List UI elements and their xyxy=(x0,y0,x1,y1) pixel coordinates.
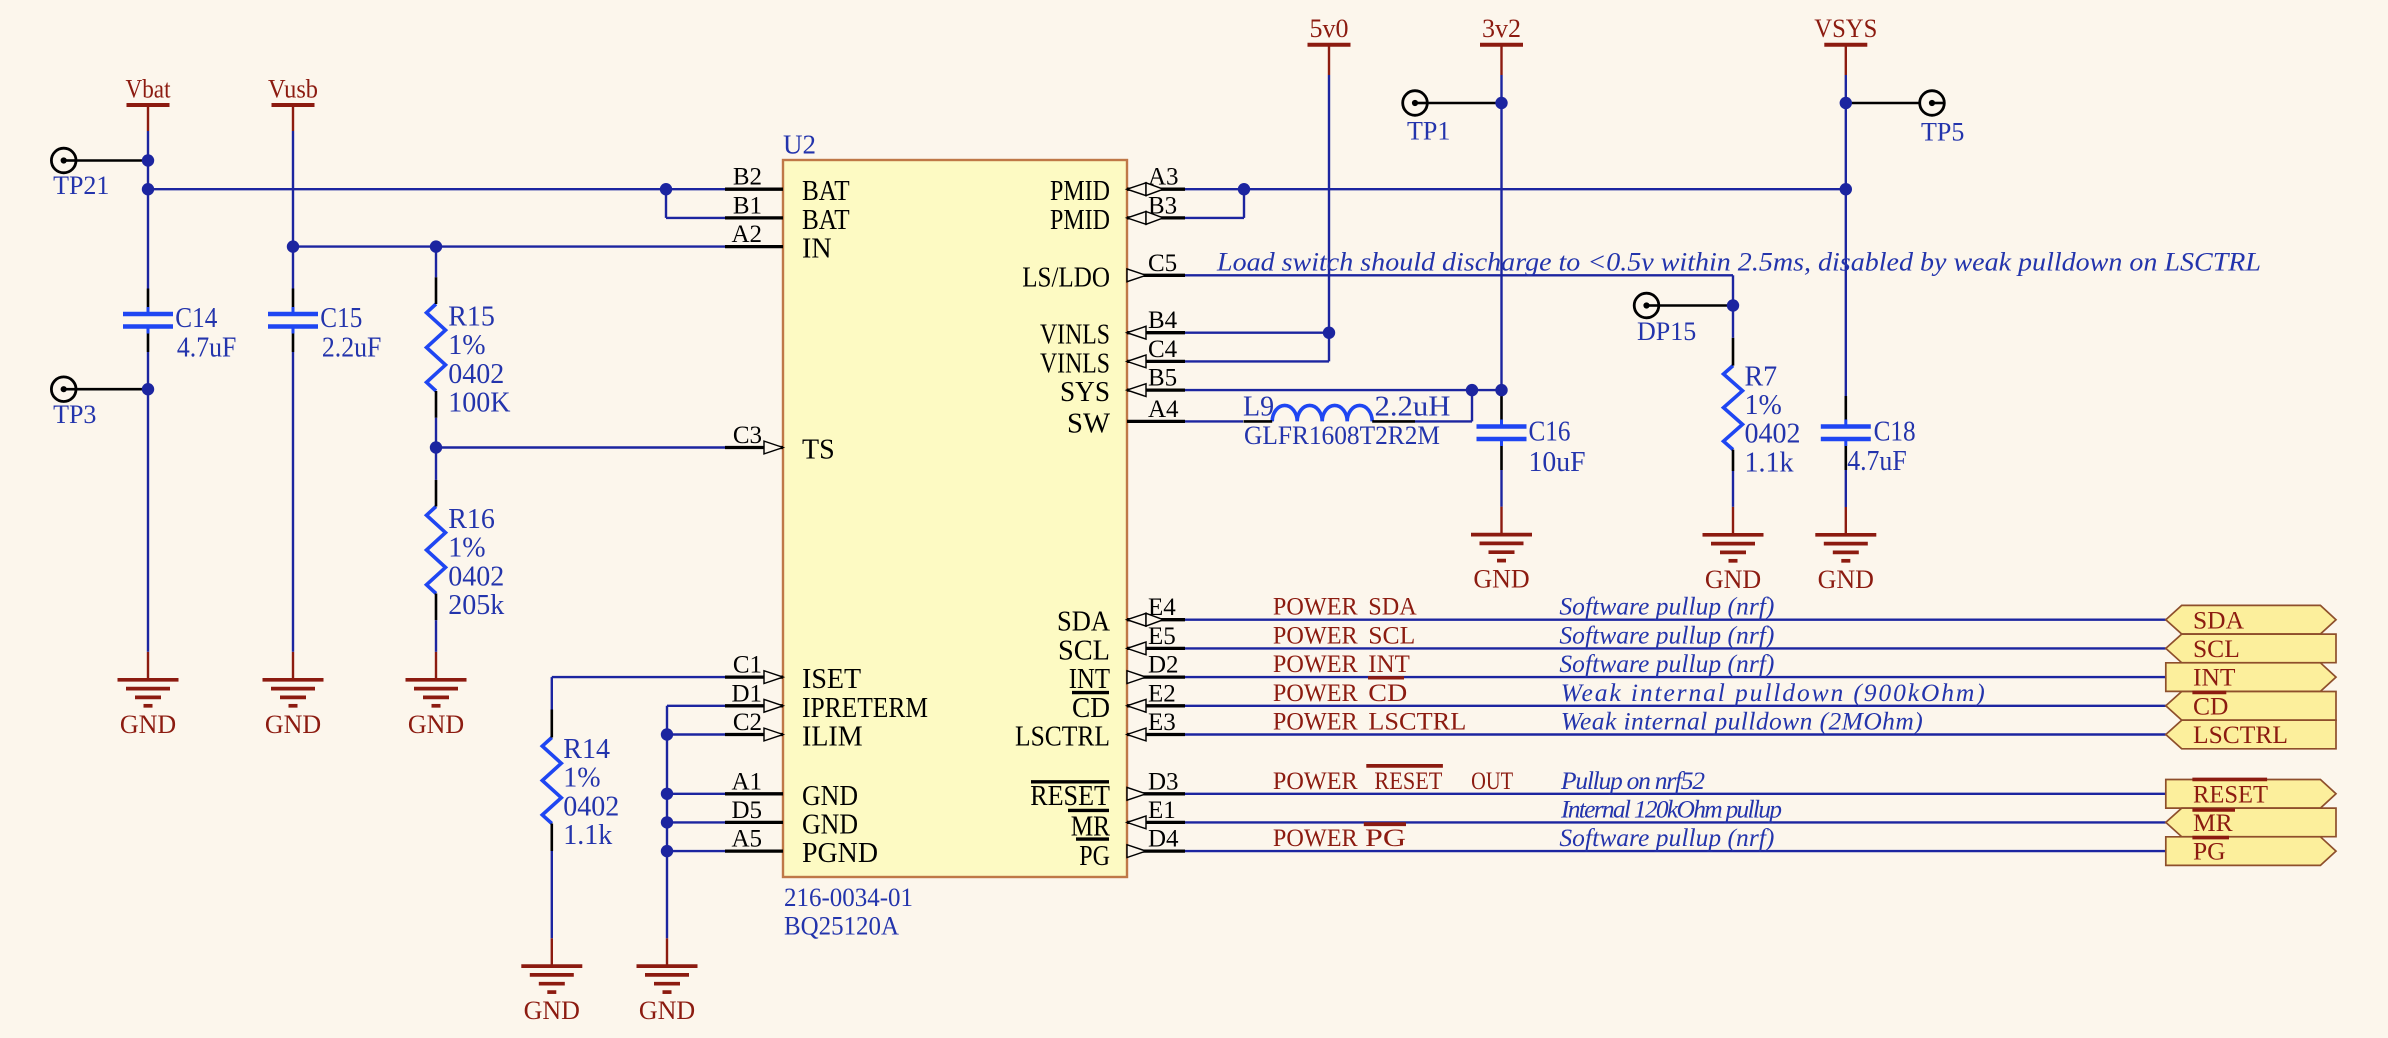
svg-text:SCL: SCL xyxy=(1058,635,1110,666)
capacitor C15 xyxy=(268,307,318,334)
svg-text:INT: INT xyxy=(1069,664,1110,695)
svg-text:GND: GND xyxy=(639,996,695,1025)
wire 5v0 vertical xyxy=(1328,75,1330,361)
pin B4 VINLS (U2 right) xyxy=(1127,331,1185,334)
resistor R15 xyxy=(427,304,446,391)
wire C15 top stub xyxy=(292,289,295,308)
svg-text:IPRETERM: IPRETERM xyxy=(802,693,928,724)
ground GND (under R14) xyxy=(521,966,582,1025)
svg-text:Software pullup (nrf): Software pullup (nrf) xyxy=(1559,823,1774,852)
svg-text:D3: D3 xyxy=(1148,768,1179,795)
wire SW right xyxy=(1415,420,1472,422)
wire R14 top stub xyxy=(550,710,553,738)
svg-text:B1: B1 xyxy=(733,192,762,219)
svg-text:R14: R14 xyxy=(563,734,610,765)
wire ISET vertical xyxy=(551,677,553,709)
svg-text:A4: A4 xyxy=(1148,396,1179,423)
wire R14 bottom link xyxy=(551,851,553,938)
svg-text:1%: 1% xyxy=(448,533,485,564)
svg-text:POWER: POWER xyxy=(1273,766,1358,795)
ground GND (under C16) xyxy=(1471,535,1532,594)
wire B3 vertical xyxy=(1243,189,1245,218)
wire ISET horizontal xyxy=(552,676,725,678)
svg-text:Weak internal pulldown (2MOhm): Weak internal pulldown (2MOhm) xyxy=(1561,707,1923,736)
svg-text:Load switch should discharge t: Load switch should discharge to <0.5v wi… xyxy=(1216,248,2261,277)
wire GND D5 horizontal xyxy=(667,821,725,823)
wire E4 net horizontal xyxy=(1185,619,2166,621)
svg-text:E5: E5 xyxy=(1148,623,1176,650)
pin A2 IN (U2 left) xyxy=(725,245,783,248)
wire C18 top stub xyxy=(1845,396,1848,420)
svg-text:B5: B5 xyxy=(1148,365,1177,392)
svg-text:PG: PG xyxy=(1079,841,1110,872)
overbar PG flag xyxy=(2192,836,2229,840)
ground GND (under R7) xyxy=(1703,535,1764,594)
test point TP3 xyxy=(51,377,148,429)
wire gnd stem R14 xyxy=(551,938,553,966)
wire VINLS C4 horizontal xyxy=(1185,360,1329,362)
svg-text:Software pullup (nrf): Software pullup (nrf) xyxy=(1559,649,1774,678)
wire D4 net horizontal xyxy=(1185,850,2166,852)
overbar RESET flag xyxy=(2192,778,2267,782)
resistor R14 xyxy=(542,738,561,824)
svg-text:100K: 100K xyxy=(448,388,510,419)
pin C2 ILIM (U2 left) xyxy=(725,733,783,736)
svg-text:R16: R16 xyxy=(448,504,495,535)
wire C14 top stub xyxy=(147,289,150,308)
pin E1 MR (U2 right) xyxy=(1127,821,1185,824)
svg-text:INT: INT xyxy=(2193,663,2236,692)
svg-text:LS/LDO: LS/LDO xyxy=(1022,262,1110,293)
svg-text:GND: GND xyxy=(524,996,580,1025)
wire VSYS vertical xyxy=(1845,75,1847,396)
junction dot 7 xyxy=(430,441,442,453)
svg-text:SDA: SDA xyxy=(2193,605,2245,634)
svg-text:C1: C1 xyxy=(733,652,762,679)
pin D2 INT (U2 right) xyxy=(1127,675,1185,678)
wire gnd stem U2-gnd xyxy=(666,938,668,966)
svg-text:GND: GND xyxy=(802,809,858,840)
svg-text:1.1k: 1.1k xyxy=(563,820,612,851)
svg-text:A2: A2 xyxy=(731,221,762,248)
test point TP5 xyxy=(1846,91,1965,147)
svg-text:216-0034-01: 216-0034-01 xyxy=(784,883,913,912)
svg-text:SCL: SCL xyxy=(1368,620,1415,649)
wire BAT bus left xyxy=(148,188,725,190)
pin D4 PG (U2 right) xyxy=(1127,849,1185,852)
wire E1 net horizontal xyxy=(1185,821,2166,823)
svg-text:GND: GND xyxy=(1818,565,1874,594)
svg-text:B4: B4 xyxy=(1148,307,1178,334)
svg-text:D2: D2 xyxy=(1148,652,1179,679)
wire Vusb vertical upper xyxy=(292,131,294,289)
svg-text:PG: PG xyxy=(1365,823,1406,852)
junction dot 17 xyxy=(1840,97,1852,109)
junction dot 15 xyxy=(1466,384,1478,396)
svg-text:ISET: ISET xyxy=(802,664,861,695)
junction dot 2 xyxy=(142,183,154,195)
pin A1 GND (U2 left) xyxy=(725,792,783,795)
junction dot 6 xyxy=(142,383,154,395)
svg-text:GLFR1608T2R2M: GLFR1608T2R2M xyxy=(1244,421,1440,450)
svg-text:CD: CD xyxy=(1368,678,1407,707)
svg-text:Software pullup (nrf): Software pullup (nrf) xyxy=(1559,592,1774,621)
wire gnd stem R16 xyxy=(435,652,437,680)
wire R16 bottom stub xyxy=(435,594,438,621)
junction dot 12 xyxy=(1238,183,1250,195)
pin E4 SDA (U2 right) xyxy=(1127,618,1185,621)
svg-text:LSCTRL: LSCTRL xyxy=(2193,720,2288,749)
junction dot 5 xyxy=(430,240,442,252)
ground GND (under C14) xyxy=(118,680,179,739)
pin B5 SYS (U2 right) xyxy=(1127,388,1185,391)
global label LSCTRL xyxy=(2166,720,2336,749)
svg-text:0402: 0402 xyxy=(448,359,504,390)
wire gnd stem C18 xyxy=(1845,507,1847,535)
pin B2 BAT (U2 left) xyxy=(725,188,783,191)
svg-text:POWER: POWER xyxy=(1273,649,1358,678)
svg-text:0402: 0402 xyxy=(1745,419,1801,450)
svg-text:PG: PG xyxy=(2193,837,2226,866)
svg-text:CD: CD xyxy=(1072,693,1110,724)
svg-text:RESET: RESET xyxy=(1030,781,1110,812)
junction dot 11 xyxy=(661,845,673,857)
svg-text:Vbat: Vbat xyxy=(126,74,172,103)
svg-text:TP3: TP3 xyxy=(53,400,96,429)
resistor R16 xyxy=(427,507,446,594)
wire VINLS B4 horizontal xyxy=(1185,332,1329,334)
svg-text:BAT: BAT xyxy=(802,205,850,236)
wire C18 bottom stub xyxy=(1845,446,1848,470)
junction dot 19 xyxy=(1727,299,1739,311)
wire PGND horizontal xyxy=(667,850,725,852)
svg-text:SDA: SDA xyxy=(1057,607,1111,638)
svg-text:1.1k: 1.1k xyxy=(1745,447,1794,478)
svg-text:U2: U2 xyxy=(783,130,816,160)
svg-text:A5: A5 xyxy=(731,826,762,853)
wire D2 net horizontal xyxy=(1185,676,2166,678)
wire R7 bottom link xyxy=(1732,471,1734,507)
svg-text:C5: C5 xyxy=(1148,250,1177,277)
pin B3 PMID (U2 right) xyxy=(1127,216,1185,219)
svg-text:Software pullup (nrf): Software pullup (nrf) xyxy=(1559,620,1774,649)
svg-text:ILIM: ILIM xyxy=(802,722,863,753)
svg-text:1%: 1% xyxy=(563,763,600,794)
svg-text:4.7uF: 4.7uF xyxy=(177,333,237,364)
svg-text:C4: C4 xyxy=(1148,336,1178,363)
svg-text:2.2uH: 2.2uH xyxy=(1375,392,1451,423)
global label CD xyxy=(2166,692,2336,721)
wire C16 bottom stub xyxy=(1500,446,1503,470)
wire E5 net horizontal xyxy=(1185,647,2166,649)
svg-text:E1: E1 xyxy=(1148,797,1176,824)
svg-text:OUT: OUT xyxy=(1471,766,1513,795)
svg-text:LSCTRL: LSCTRL xyxy=(1368,707,1466,736)
capacitor C18 xyxy=(1821,420,1871,447)
svg-text:SDA: SDA xyxy=(1368,592,1417,621)
svg-text:MR: MR xyxy=(2193,808,2233,837)
wire ILIM horizontal xyxy=(667,733,725,735)
wire R15-R16 link xyxy=(435,418,437,480)
wire SYS horizontal xyxy=(1185,389,1502,391)
overbar INT flag xyxy=(2192,691,2226,695)
wire gnd bus vertical xyxy=(666,706,668,939)
svg-text:L9: L9 xyxy=(1243,392,1274,423)
svg-text:5v0: 5v0 xyxy=(1310,14,1349,43)
wire PMID bus right xyxy=(1185,188,1846,190)
svg-text:R15: R15 xyxy=(448,302,495,333)
wire C16 top stub xyxy=(1500,395,1503,420)
wire R14 bottom stub xyxy=(550,824,553,852)
svg-text:GND: GND xyxy=(802,781,858,812)
wire 5v0 stem xyxy=(1328,45,1330,75)
power flag VSYS xyxy=(1814,14,1877,45)
svg-text:GND: GND xyxy=(265,710,321,739)
ground GND (under R16) xyxy=(406,680,467,739)
wire E3 net horizontal xyxy=(1185,733,2166,735)
svg-text:POWER: POWER xyxy=(1273,592,1358,621)
test point TP21 xyxy=(51,148,148,200)
svg-text:E3: E3 xyxy=(1148,709,1176,736)
svg-text:D5: D5 xyxy=(731,797,762,824)
power flag 3v2 xyxy=(1480,14,1523,45)
svg-text:CD: CD xyxy=(2193,691,2228,720)
wire R16 bottom link xyxy=(435,620,437,652)
pin D5 GND (U2 left) xyxy=(725,821,783,824)
svg-text:D4: D4 xyxy=(1148,826,1179,853)
wire gnd stem R7 xyxy=(1732,507,1734,535)
pin C4 VINLS (U2 right) xyxy=(1127,360,1185,363)
wire IPRETERM horizontal xyxy=(667,705,725,707)
ground GND (under C15) xyxy=(263,680,324,739)
junction dot 1 xyxy=(142,154,154,166)
wire Vusb stem xyxy=(292,105,294,131)
pin C1 ISET (U2 left) xyxy=(725,675,783,678)
wire gnd stem C14 xyxy=(147,652,149,680)
svg-text:C16: C16 xyxy=(1529,417,1571,448)
wire gnd stem C16 xyxy=(1500,507,1502,535)
pin D1 IPRETERM (U2 left) xyxy=(725,704,783,707)
pin C3 TS (U2 left) xyxy=(725,446,783,449)
svg-text:C2: C2 xyxy=(733,709,762,736)
svg-text:INT: INT xyxy=(1368,649,1410,678)
svg-text:A1: A1 xyxy=(731,768,762,795)
svg-text:POWER: POWER xyxy=(1273,620,1358,649)
svg-text:C15: C15 xyxy=(320,303,362,334)
wire gnd stem C15 xyxy=(292,652,294,680)
wire B1 branch vertical xyxy=(665,189,667,218)
wire R15 bottom stub xyxy=(435,391,438,418)
wire TS horizontal xyxy=(436,446,725,448)
wire R7 top stub xyxy=(1732,338,1735,366)
wire SW up link xyxy=(1471,390,1473,421)
svg-text:GND: GND xyxy=(1473,565,1529,594)
svg-text:C18: C18 xyxy=(1874,416,1916,447)
wire Vusb vertical lower xyxy=(292,352,294,652)
junction dot 10 xyxy=(661,816,673,828)
test point DP15 xyxy=(1634,293,1733,346)
wire GND A1 horizontal xyxy=(667,793,725,795)
pin E5 SCL (U2 right) xyxy=(1127,647,1185,650)
wire 3v2 vertical xyxy=(1500,75,1502,395)
wire C14 bottom stub xyxy=(147,334,150,353)
inductor L9 xyxy=(1272,405,1372,421)
svg-text:Pullup on nrf52: Pullup on nrf52 xyxy=(1560,766,1705,795)
svg-text:B2: B2 xyxy=(733,164,762,191)
svg-text:2.2uF: 2.2uF xyxy=(322,333,382,364)
wire Vbat stem xyxy=(147,105,149,131)
junction dot 14 xyxy=(1495,97,1507,109)
wire Vbat vertical upper xyxy=(147,131,149,289)
wire D3 net horizontal xyxy=(1185,793,2166,795)
power flag Vbat xyxy=(126,74,172,105)
svg-text:POWER: POWER xyxy=(1273,707,1358,736)
IC U2 BQ25120A body xyxy=(783,160,1127,877)
wire SW left xyxy=(1185,420,1243,422)
wire LS/LDO horizontal xyxy=(1185,274,1733,276)
svg-text:1%: 1% xyxy=(448,330,485,361)
wire C18 bottom link xyxy=(1845,470,1847,507)
junction dot 8 xyxy=(661,728,673,740)
power flag Vusb xyxy=(268,74,318,105)
global label SDA xyxy=(2166,605,2336,634)
wire C15 bottom stub xyxy=(292,334,295,353)
pin C5 LS/LDO (U2 right) xyxy=(1127,274,1185,277)
svg-text:C3: C3 xyxy=(733,422,762,449)
pin A4 SW (U2 right) xyxy=(1127,420,1185,423)
svg-text:E2: E2 xyxy=(1148,680,1176,707)
wire L9 left stub xyxy=(1244,420,1273,423)
wire 3v2 stem xyxy=(1500,45,1502,75)
svg-text:SYS: SYS xyxy=(1060,377,1110,408)
wire VSYS stem xyxy=(1845,45,1847,75)
wire IN horizontal xyxy=(293,245,725,247)
pin E3 LSCTRL (U2 right) xyxy=(1127,733,1185,736)
svg-text:Internal 120kOhm pullup: Internal 120kOhm pullup xyxy=(1560,794,1782,823)
overbar MR flag xyxy=(2192,808,2235,812)
svg-text:POWER: POWER xyxy=(1273,823,1358,852)
junction dot 16 xyxy=(1495,384,1507,396)
svg-text:RESET: RESET xyxy=(1374,766,1442,795)
power flag 5v0 xyxy=(1308,14,1351,45)
svg-text:0402: 0402 xyxy=(448,561,504,592)
svg-text:10uF: 10uF xyxy=(1529,447,1586,478)
global label SCL xyxy=(2166,634,2336,663)
svg-text:POWER: POWER xyxy=(1273,678,1358,707)
svg-text:SCL: SCL xyxy=(2193,634,2240,663)
svg-text:GND: GND xyxy=(1705,565,1761,594)
junction dot 4 xyxy=(287,240,299,252)
svg-text:DP15: DP15 xyxy=(1637,317,1696,346)
wire Vbat vertical lower xyxy=(147,352,149,652)
wire R7 bottom stub xyxy=(1732,450,1735,471)
pin E2 CD (U2 right) xyxy=(1127,704,1185,707)
svg-text:PMID: PMID xyxy=(1050,205,1110,236)
svg-text:LSCTRL: LSCTRL xyxy=(1015,722,1110,753)
pin D3 RESET (U2 right) xyxy=(1127,792,1185,795)
svg-text:SW: SW xyxy=(1067,408,1111,439)
wire L9 right stub xyxy=(1372,420,1415,423)
svg-text:Weak internal pulldown (900kOh: Weak internal pulldown (900kOhm) xyxy=(1561,678,1985,707)
svg-text:RESET: RESET xyxy=(2193,779,2268,808)
svg-text:4.7uF: 4.7uF xyxy=(1847,446,1907,477)
svg-text:D1: D1 xyxy=(731,680,762,707)
svg-text:1%: 1% xyxy=(1745,390,1782,421)
global label RESET xyxy=(2166,780,2336,809)
svg-text:R7: R7 xyxy=(1745,361,1778,392)
capacitor C16 xyxy=(1477,420,1527,447)
global label PG xyxy=(2166,837,2336,866)
wire E2 net horizontal xyxy=(1185,705,2166,707)
svg-text:C14: C14 xyxy=(175,303,217,334)
svg-text:GND: GND xyxy=(408,710,464,739)
svg-text:TP1: TP1 xyxy=(1407,117,1450,146)
wire B3 horizontal xyxy=(1185,217,1244,219)
wire LS/LDO vertical xyxy=(1732,275,1734,338)
svg-text:BAT: BAT xyxy=(802,176,850,207)
svg-text:TP21: TP21 xyxy=(53,171,109,200)
svg-text:0402: 0402 xyxy=(563,791,619,822)
svg-text:VSYS: VSYS xyxy=(1814,14,1877,43)
pin B1 BAT (U2 left) xyxy=(725,216,783,219)
pin A3 PMID (U2 right) xyxy=(1127,188,1185,191)
svg-text:3v2: 3v2 xyxy=(1482,14,1521,43)
junction dot 18 xyxy=(1840,183,1852,195)
wire R16 top stub xyxy=(435,480,438,507)
junction dot 3 xyxy=(660,183,672,195)
capacitor C14 xyxy=(123,307,173,334)
svg-text:PMID: PMID xyxy=(1050,176,1110,207)
junction dot 9 xyxy=(661,788,673,800)
global label INT xyxy=(2166,663,2336,692)
svg-text:205k: 205k xyxy=(448,590,504,621)
ground GND (under C18) xyxy=(1815,535,1876,594)
svg-text:IN: IN xyxy=(802,234,832,265)
wire B1 branch horizontal xyxy=(666,217,725,219)
resistor R7 xyxy=(1724,366,1743,450)
ground GND (U2 gnd net) xyxy=(637,966,698,1025)
test point TP1 xyxy=(1403,91,1502,146)
wire R15 top stub xyxy=(435,277,438,304)
svg-text:GND: GND xyxy=(120,710,176,739)
global label MR xyxy=(2166,808,2336,837)
svg-text:VINLS: VINLS xyxy=(1040,348,1110,379)
pin A5 PGND (U2 left) xyxy=(725,849,783,852)
svg-text:TP5: TP5 xyxy=(1921,118,1964,147)
svg-text:PGND: PGND xyxy=(802,838,878,869)
svg-text:Vusb: Vusb xyxy=(268,74,318,103)
svg-text:BQ25120A: BQ25120A xyxy=(784,912,899,941)
wire R15 top link xyxy=(435,247,437,278)
svg-text:VINLS: VINLS xyxy=(1040,320,1110,351)
wire C16 bottom link xyxy=(1500,470,1502,507)
junction dot 13 xyxy=(1323,327,1335,339)
svg-text:TS: TS xyxy=(802,435,835,466)
